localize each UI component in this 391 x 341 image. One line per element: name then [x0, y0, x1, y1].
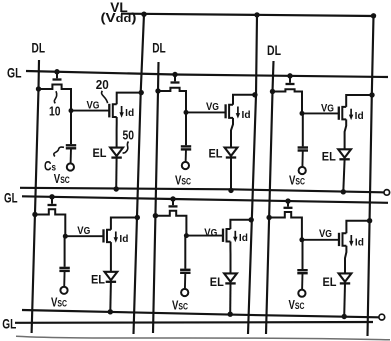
EL element diode triangle, pixel 1-2	[105, 272, 118, 280]
EL element diode triangle, pixel 3-1	[338, 149, 351, 157]
svg-text:VG: VG	[204, 227, 217, 239]
svg-text:Id: Id	[355, 111, 364, 122]
svg-text:VG: VG	[87, 100, 100, 112]
drive transistor, pixel 2-2 (gate bar)	[222, 229, 224, 242]
data line DL 3	[266, 61, 274, 334]
page-bottom scan shadow line	[16, 336, 390, 340]
switching transistor channel + source/drain wire, pixel 1-2	[35, 209, 65, 236]
wire: drive TFT drain to VL line, pixel 3-1	[346, 95, 372, 107]
wire: VG node to drive-TFT gate, pixel 3-1	[302, 112, 339, 114]
wire: EL cathode to common line, pixel 3-1	[343, 159, 344, 192]
svg-text:EL: EL	[91, 273, 105, 287]
drive transistor, pixel 1-2 (gate bar)	[102, 229, 104, 242]
gate line GL row 1	[26, 71, 388, 77]
wire: drive TFT drain to VL line, pixel 1-2	[111, 218, 137, 230]
wire: capacitor to Vsc terminal, pixel 3-1	[301, 151, 303, 168]
wire: capacitor to Vsc terminal, pixel 1-2	[63, 271, 65, 287]
drive transistor, pixel 2-1 (gate bar)	[224, 104, 226, 118]
leader line for numeral 20	[102, 91, 108, 103]
switching transistor channel + source/drain wire, pixel 1-1	[39, 85, 72, 111]
junction dot on DL, pixel 2-2	[153, 213, 158, 218]
wire: drive TFT source to EL anode, pixel 3-2	[345, 246, 346, 274]
junction dot on cathode line, pixel 2-2	[228, 312, 233, 317]
junction dot on DL, pixel 1-1	[36, 86, 41, 91]
wire: drive TFT source to EL anode, pixel 2-2	[229, 242, 231, 274]
junction dot on GL, pixel 2-1	[172, 72, 177, 77]
svg-text:Id: Id	[119, 234, 128, 245]
junction dot on cathode line, pixel 3-2	[342, 314, 347, 319]
svg-text:DL: DL	[267, 43, 281, 58]
switching transistor channel + source/drain wire, pixel 3-1	[273, 89, 303, 113]
junction dot on VL, pixel 3-2	[367, 218, 372, 223]
open terminal circle, cathode line row 2	[379, 314, 385, 320]
current Id arrow, pixel 3-2	[350, 235, 352, 242]
svg-text:GL: GL	[2, 315, 16, 331]
svg-text:VSC: VSC	[289, 174, 305, 188]
EL element diode triangle, pixel 2-1	[225, 148, 238, 156]
wire: EL cathode to common line, pixel 2-1	[230, 158, 232, 191]
svg-text:Id: Id	[239, 233, 248, 244]
svg-text:50: 50	[123, 129, 135, 143]
junction dot on cathode line, pixel 1-1	[114, 186, 119, 191]
EL diode cathode bar, pixel 2-1	[226, 156, 236, 158]
drive transistor channel bump, pixel 2-2	[227, 229, 231, 242]
svg-text:EL: EL	[93, 146, 107, 160]
svg-text:Id: Id	[125, 108, 134, 119]
svg-text:(Vdd): (Vdd)	[101, 10, 137, 25]
svg-text:20: 20	[96, 78, 109, 92]
storage capacitor, pixel 2-2	[184, 236, 186, 269]
data line DL 2	[153, 62, 159, 333]
junction dot VL1 on rail	[141, 12, 146, 17]
Vsc terminal circle, pixel 2-2	[181, 289, 188, 296]
drive transistor, pixel 3-1 (gate bar)	[338, 107, 340, 120]
wire: gate stub of switching TFT, pixel 1-2	[51, 197, 53, 204]
node VG dot, pixel 3-1	[300, 111, 305, 116]
Vsc terminal circle, pixel 3-2	[298, 290, 305, 297]
junction dot on VL, pixel 2-1	[252, 92, 257, 97]
supply column line VL 2	[248, 15, 257, 334]
storage capacitor, pixel 2-1	[185, 112, 187, 145]
junction dot on GL, pixel 1-1	[54, 69, 59, 74]
junction dot on cathode line, pixel 3-1	[341, 189, 346, 194]
wire: EL cathode to common line, pixel 3-2	[343, 283, 346, 316]
junction dot on GL, pixel 3-2	[285, 198, 290, 203]
drive transistor, pixel 3-2 (gate bar)	[338, 233, 340, 246]
supply rail VL (Vdd), horizontal	[121, 14, 374, 16]
svg-text:VG: VG	[319, 228, 332, 240]
svg-text:VSC: VSC	[172, 298, 188, 312]
junction dot VL2 on rail	[254, 12, 259, 17]
EL diode cathode bar, pixel 1-2	[106, 281, 116, 283]
wire: EL cathode to common line, pixel 1-1	[115, 158, 117, 189]
node VG dot, pixel 1-1	[69, 108, 74, 113]
drive transistor channel bump, pixel 1-1	[113, 104, 117, 117]
wire: gate stub of switching TFT, pixel 1-1	[56, 72, 58, 79]
junction dot on DL, pixel 1-2	[32, 212, 37, 217]
node VG dot, pixel 1-2	[63, 234, 68, 239]
wire: drive TFT source to EL anode, pixel 2-1	[231, 118, 233, 148]
node VG dot, pixel 3-2	[299, 237, 304, 242]
svg-text:Id: Id	[355, 237, 364, 248]
wire: capacitor to Vsc terminal, pixel 3-2	[301, 273, 303, 290]
svg-text:Id: Id	[242, 110, 251, 121]
svg-text:Cs: Cs	[44, 159, 56, 174]
wire: VG node to drive-TFT gate, pixel 2-1	[186, 111, 226, 113]
EL diode cathode bar, pixel 3-1	[339, 158, 349, 160]
wire: gate stub of switching TFT, pixel 2-1	[174, 75, 176, 82]
svg-text:EL: EL	[322, 150, 336, 164]
Vsc terminal circle, pixel 1-1	[67, 163, 74, 170]
EL element diode triangle, pixel 3-2	[339, 273, 352, 281]
Vsc terminal circle, pixel 1-2	[60, 287, 67, 294]
junction dot on GL, pixel 3-1	[287, 73, 292, 78]
current Id arrow, pixel 1-2	[115, 232, 117, 239]
node VG dot, pixel 2-2	[184, 233, 189, 238]
junction dot on DL, pixel 3-1	[270, 89, 275, 94]
current Id arrow, pixel 2-2	[234, 231, 236, 238]
wire: gate stub of switching TFT, pixel 3-1	[289, 76, 291, 83]
wire: drive TFT source to EL anode, pixel 3-1	[345, 119, 347, 149]
current Id arrow, pixel 3-1	[350, 109, 352, 116]
svg-text:EL: EL	[209, 147, 223, 161]
svg-text:VG: VG	[206, 101, 219, 113]
EL diode cathode bar, pixel 1-1	[111, 156, 121, 158]
junction dot on DL, pixel 3-2	[266, 215, 271, 220]
supply column line VL 1	[134, 14, 145, 334]
svg-text:DL: DL	[32, 40, 46, 55]
wire: drive TFT source to EL anode, pixel 1-1	[116, 117, 118, 148]
open terminal circle, cathode line row 1	[384, 190, 390, 196]
storage capacitor, pixel 3-1	[302, 113, 304, 146]
switching transistor, pixel 3-2 (gate bar)	[284, 207, 293, 209]
wire: capacitor to Vsc terminal, pixel 1-1	[70, 148, 72, 164]
wire: drive TFT source to EL anode, pixel 1-2	[110, 242, 112, 272]
svg-text:VG: VG	[77, 225, 90, 237]
gate line GL row 3	[15, 321, 373, 324]
data line DL 1	[32, 60, 39, 333]
svg-text:EL: EL	[323, 275, 337, 289]
wire: EL cathode to common line, pixel 2-2	[229, 283, 231, 314]
svg-text:VSC: VSC	[289, 298, 305, 312]
drive transistor channel bump, pixel 3-1	[342, 107, 346, 120]
supply column line VL 3	[368, 16, 374, 336]
drive transistor channel bump, pixel 3-2	[343, 233, 347, 246]
switching transistor channel + source/drain wire, pixel 2-1	[158, 88, 186, 113]
switching transistor, pixel 2-1 (gate bar)	[171, 81, 180, 83]
switching transistor, pixel 3-1 (gate bar)	[286, 83, 295, 85]
wire: VG node to drive-TFT gate, pixel 2-2	[186, 235, 223, 237]
storage capacitor Cs, pixel 1-1	[70, 111, 72, 145]
svg-text:GL: GL	[7, 64, 22, 80]
EL diode cathode bar, pixel 2-2	[225, 282, 235, 284]
current Id arrow, pixel 2-1	[237, 107, 239, 115]
switching transistor 10, pixel 1-1 (gate bar)	[53, 78, 62, 80]
drive transistor 20, pixel 1-1 (gate bar)	[108, 104, 110, 118]
junction dot on VL, pixel 2-2	[249, 217, 254, 222]
switching transistor, pixel 1-2 (gate bar)	[48, 204, 57, 206]
wire: capacitor to Vsc terminal, pixel 2-1	[185, 149, 187, 162]
storage capacitor, pixel 1-2	[64, 236, 66, 267]
Vsc terminal circle, pixel 3-1	[299, 167, 306, 174]
junction dot on VL, pixel 1-2	[135, 215, 140, 220]
storage capacitor, pixel 3-2	[302, 240, 304, 269]
junction dot on VL, pixel 1-1	[139, 90, 144, 95]
svg-text:DL: DL	[152, 40, 166, 55]
drive transistor channel bump, pixel 1-2	[107, 230, 111, 242]
EL element diode triangle, pixel 2-2	[224, 273, 237, 281]
wire: gate stub of switching TFT, pixel 2-2	[172, 199, 174, 205]
svg-text:VSC: VSC	[51, 296, 67, 310]
junction dot on VL, pixel 3-1	[369, 92, 374, 97]
leader line for numeral 50	[123, 142, 129, 154]
wire: VG node to drive-TFT gate, pixel 1-1	[71, 110, 109, 112]
switching transistor, pixel 2-2 (gate bar)	[169, 205, 178, 207]
EL element 50 diode triangle, pixel 1-1	[110, 148, 123, 156]
wire: EL cathode to common line, pixel 1-2	[109, 282, 112, 312]
svg-text:GL: GL	[4, 189, 18, 205]
wire: drive TFT drain to VL line, pixel 1-1	[117, 93, 142, 105]
wire: drive TFT drain to VL line, pixel 2-1	[233, 95, 255, 105]
switching transistor channel + source/drain wire, pixel 2-2	[155, 211, 186, 236]
gate line GL row 2	[22, 196, 388, 203]
EL diode cathode bar, pixel 3-2	[340, 282, 350, 284]
wire: drive TFT drain to VL line, pixel 2-2	[230, 220, 251, 229]
junction dot on GL, pixel 1-2	[49, 194, 54, 199]
leader line for label Cs	[54, 147, 64, 156]
junction dot on GL, pixel 2-2	[170, 196, 175, 201]
wire: drive TFT drain to VL line, pixel 3-2	[346, 221, 369, 234]
leader line for numeral 10	[54, 91, 56, 103]
wire: VG node to drive-TFT gate, pixel 3-2	[302, 239, 339, 241]
junction dot VL3 on rail	[371, 13, 376, 18]
EL common cathode line row 1	[20, 188, 384, 193]
switching transistor channel + source/drain wire, pixel 3-2	[269, 212, 302, 240]
Vsc terminal circle, pixel 2-1	[182, 162, 189, 169]
EL common cathode line row 2	[22, 310, 379, 317]
junction dot on cathode line, pixel 2-1	[228, 188, 233, 193]
junction dot on DL, pixel 2-1	[155, 88, 160, 93]
svg-text:10: 10	[49, 104, 61, 118]
svg-text:VG: VG	[321, 103, 334, 115]
wire: capacitor to Vsc terminal, pixel 2-2	[184, 273, 186, 290]
svg-text:VSC: VSC	[54, 172, 70, 186]
drive transistor channel bump, pixel 2-1	[229, 105, 233, 118]
node VG dot, pixel 2-1	[184, 110, 189, 115]
wire: gate stub of switching TFT, pixel 3-2	[287, 201, 289, 207]
wire: VG node to drive-TFT gate, pixel 1-2	[65, 235, 103, 237]
svg-text:EL: EL	[210, 275, 224, 289]
svg-text:VSC: VSC	[175, 174, 191, 188]
current Id arrow, pixel 1-1	[121, 106, 123, 113]
junction dot on cathode line, pixel 1-2	[108, 309, 113, 314]
